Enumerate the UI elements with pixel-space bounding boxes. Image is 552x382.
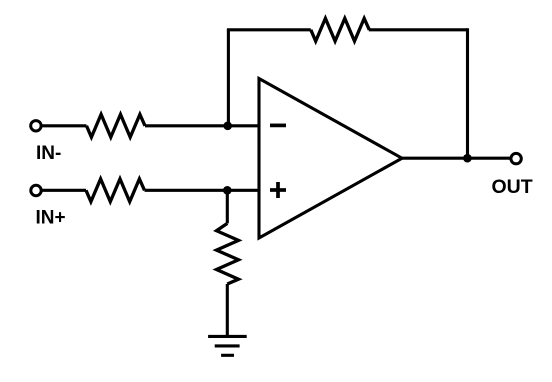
svg-text:IN-: IN- [36,143,61,164]
node B (non-inverting input junction) [223,186,232,195]
terminal OUT [511,153,521,163]
wire op-amp output to OUT terminal [402,157,510,160]
wire feedback top right segment [369,28,468,31]
svg-text:OUT: OUT [492,176,533,198]
wire IN- terminal to R1 [41,124,86,127]
wire feedback top left segment [227,28,311,31]
node C (output junction) [463,154,472,163]
svg-text:IN+: IN+ [36,207,66,228]
wire R3 to op-amp non-inverting input [145,189,260,192]
wire feedback down to output node [466,28,469,158]
wire IN+ terminal to R3 [41,189,86,192]
wire node A up to feedback [227,30,230,128]
terminal IN+ [31,185,41,195]
terminal IN- [31,121,41,131]
op-amp non-inverting pin label (plus) [270,182,286,198]
resistor R3 (IN+ input) [86,179,145,202]
wire node B down to R4 [226,190,229,223]
node A (inverting input junction) [223,122,232,131]
resistor R2 (feedback) [311,18,370,41]
ground [208,336,247,355]
wire R1 to op-amp inverting input [145,124,259,127]
wire R4 to ground [226,284,229,336]
resistor R1 (IN- input) [87,114,146,137]
op-amp U1 [259,79,402,239]
resistor R4 (to ground) [217,223,239,284]
op-amp inverting pin label (minus) [270,124,286,128]
